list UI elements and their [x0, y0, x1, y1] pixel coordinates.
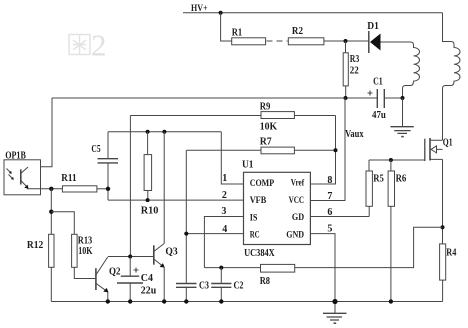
- wire D1 to aux winding: [381, 41, 411, 43]
- svg-text:R6: R6: [396, 174, 407, 185]
- svg-text:VFB: VFB: [250, 195, 267, 205]
- junction dot Vref-R7: [334, 148, 338, 152]
- svg-text:R3: R3: [350, 54, 360, 65]
- svg-text:C4: C4: [141, 273, 154, 284]
- junction dot C3 rail: [184, 299, 188, 303]
- svg-text:GD: GD: [292, 212, 305, 222]
- wire sense branch to IS: [204, 227, 442, 267]
- wire R2 to D1: [324, 40, 368, 42]
- transistor Q2: [96, 257, 121, 302]
- junction dot R2-R3-D1 node: [344, 39, 348, 43]
- junction dot C4 rail: [128, 299, 132, 303]
- junction dot R10 top: [146, 130, 150, 134]
- svg-text:R8: R8: [260, 276, 270, 287]
- svg-text:Q3: Q3: [165, 247, 177, 258]
- svg-text:R2: R2: [292, 26, 303, 37]
- resistor R1: [232, 28, 266, 45]
- junction dot Q3 collector top: [162, 130, 166, 134]
- wire R9 corner down to Q2 collector: [129, 116, 131, 257]
- resistor R12: [27, 234, 54, 301]
- capacitor C4: [117, 257, 156, 302]
- junction dot HV node: [219, 11, 223, 15]
- junction dot C1-winding-ground: [401, 96, 405, 100]
- wire gate line: [369, 159, 425, 161]
- optocoupler OP1B: [4, 150, 41, 195]
- svg-text:COMP: COMP: [250, 178, 275, 188]
- junction dot R10 bottom VFB: [146, 198, 150, 202]
- inductor primary winding T1b: [443, 45, 461, 141]
- junction dot Q2 emitter rail: [106, 299, 110, 303]
- svg-text:Q1: Q1: [443, 138, 453, 149]
- watermark figure-2: [69, 35, 90, 55]
- capacitor C1: [368, 77, 387, 121]
- junction dot emitter-R12: [49, 187, 53, 191]
- svg-text:R11: R11: [61, 173, 76, 184]
- resistor R10: [141, 132, 159, 217]
- wire dashed R1-R2: [267, 40, 288, 42]
- junction dot Q3 emitter rail: [162, 299, 166, 303]
- diode D1: [367, 21, 380, 53]
- resistor R4: [440, 244, 457, 302]
- capacitor C2: [211, 268, 243, 302]
- wire HV drop to R1: [221, 13, 232, 41]
- svg-text:C3: C3: [199, 280, 209, 291]
- junction dot R11-C5-VFB: [106, 187, 110, 191]
- wire HV rail to primary winding: [443, 13, 455, 45]
- pin 8 Vref: [310, 116, 335, 186]
- svg-text:2: 2: [91, 28, 107, 63]
- inductor aux winding T1a: [403, 42, 420, 98]
- op-amp U1 UC384X box: [242, 159, 310, 259]
- svg-text:R13: R13: [78, 235, 92, 246]
- pin 1 COMP: [221, 132, 243, 184]
- svg-text:U1: U1: [242, 159, 254, 170]
- resistor R6: [388, 160, 406, 302]
- svg-text:Vaux: Vaux: [345, 129, 364, 140]
- svg-text:R5: R5: [373, 174, 384, 185]
- pin 5 GND: [310, 224, 335, 302]
- wire R12 stem: [50, 189, 52, 235]
- junction dot C2 rail: [219, 299, 223, 303]
- svg-text:R12: R12: [27, 240, 43, 251]
- junction dot R6 rail: [389, 299, 393, 303]
- wire opto emitter to R11: [27, 188, 62, 190]
- svg-text:R7: R7: [260, 136, 272, 147]
- svg-text:RC: RC: [250, 230, 260, 240]
- junction dot Vaux-R3: [344, 96, 348, 100]
- wire RT/CT vertical: [185, 150, 187, 283]
- junction dot R12-R13: [49, 210, 53, 214]
- wire Q3 collector to COMP bus: [163, 132, 165, 244]
- svg-text:5: 5: [327, 224, 332, 235]
- svg-text:22u: 22u: [141, 285, 157, 296]
- junction dot gate-R6: [389, 158, 393, 162]
- transistor Q1 MOSFET: [425, 138, 453, 161]
- svg-text:R1: R1: [232, 28, 243, 39]
- junction dot GND pin rail: [332, 299, 337, 304]
- svg-text:C5: C5: [91, 144, 100, 155]
- transistor Q3: [154, 244, 178, 302]
- pin 2 VFB: [108, 190, 244, 201]
- svg-text:GND: GND: [286, 230, 304, 240]
- pin 7 VCC: [310, 98, 345, 202]
- junction dot sense node: [441, 225, 445, 229]
- resistor R9: [130, 102, 335, 133]
- wire branch to R13: [51, 212, 74, 235]
- svg-text:10K: 10K: [260, 122, 278, 133]
- svg-text:1: 1: [222, 173, 227, 184]
- resistor R8: [260, 264, 295, 287]
- pin 3 IS: [204, 206, 243, 268]
- capacitor C5: [91, 132, 118, 200]
- svg-text:C2: C2: [234, 280, 244, 291]
- svg-text:10K: 10K: [78, 246, 92, 257]
- resistor R2: [288, 26, 324, 45]
- junction dot RC node: [184, 232, 188, 236]
- svg-text:C1: C1: [373, 77, 383, 88]
- resistor R7: [186, 136, 335, 153]
- junction dot C4 top: [128, 255, 132, 259]
- junction dot C2 top: [219, 266, 223, 270]
- svg-text:UC384X: UC384X: [244, 248, 275, 259]
- wire ground rail bottom: [51, 301, 442, 303]
- resistor R11: [61, 173, 108, 192]
- svg-text:R4: R4: [446, 248, 457, 259]
- wire Q1 source to R4: [442, 159, 444, 244]
- svg-text:22: 22: [350, 65, 359, 76]
- ground under C1: [391, 98, 414, 137]
- svg-text:47u: 47u: [372, 110, 386, 121]
- resistor R5: [366, 160, 384, 217]
- wire COMP bus: [108, 131, 221, 133]
- svg-text:Vref: Vref: [291, 177, 305, 187]
- resistor R3: [343, 41, 359, 98]
- resistor R13: [72, 234, 96, 278]
- svg-text:D1: D1: [367, 21, 379, 32]
- svg-text:2: 2: [222, 190, 227, 201]
- capacitor C3: [176, 280, 209, 301]
- ground center bottom: [323, 302, 347, 324]
- svg-text:R9: R9: [260, 102, 271, 113]
- pin 6 GD: [310, 207, 369, 218]
- svg-text:R10: R10: [141, 206, 159, 217]
- svg-text:3: 3: [221, 206, 226, 217]
- wire left loop from Vaux bus: [28, 98, 52, 167]
- wire Q2 collector to Q3 base: [108, 256, 154, 258]
- pin 4 RC: [186, 224, 243, 235]
- wire top HV+ rail: [183, 12, 443, 14]
- svg-text:Q2: Q2: [109, 267, 121, 278]
- svg-text:IS: IS: [250, 212, 258, 222]
- svg-text:VCC: VCC: [289, 195, 305, 205]
- wire Vaux horizontal bus: [52, 97, 403, 99]
